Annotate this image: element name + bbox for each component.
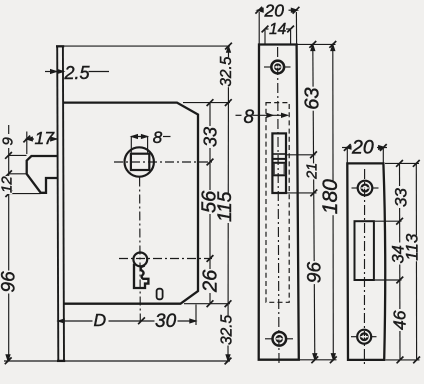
latch bolt (side profile)	[27, 156, 58, 193]
screw bottom (strike)	[357, 330, 371, 344]
svg-text:63: 63	[301, 87, 323, 109]
svg-text:2.5: 2.5	[64, 63, 91, 83]
dim 8 (follower square)	[131, 136, 147, 138]
centre line horizontal through follower	[114, 161, 212, 163]
strike inner dim line 33/34/46	[399, 163, 402, 360]
lock case outline	[64, 103, 198, 304]
dim 14 (middle)	[265, 28, 269, 30]
centre line vertical (strike)	[363, 169, 365, 366]
follower square hole	[131, 154, 149, 170]
svg-text:12: 12	[0, 176, 15, 193]
centre line vertical (follower/keyhole axis)	[139, 178, 142, 326]
centre line horizontal through keyhole	[119, 258, 212, 260]
svg-text:D: D	[94, 310, 107, 330]
svg-text:180: 180	[319, 179, 342, 214]
dim 20 (middle top)	[259, 9, 264, 11]
bottom dim D / 30	[58, 320, 196, 322]
left dim chain 9 / 12 / 96	[8, 125, 10, 361]
bottom extension line (faceplate bottom level)	[4, 360, 230, 362]
svg-text:113: 113	[403, 233, 422, 261]
screw top (strike)	[358, 181, 373, 196]
strike plate outline	[347, 163, 385, 360]
top extension line (faceplate top level)	[64, 45, 230, 47]
hidden case rectangle (dashed)	[266, 103, 289, 303]
faceplate side strip	[57, 46, 58, 361]
dim 17 (latch protrusion)	[26, 132, 28, 155]
svg-text:46: 46	[390, 310, 410, 330]
svg-text:30: 30	[155, 311, 177, 332]
svg-text:20: 20	[351, 137, 374, 159]
latch bolt front	[272, 133, 286, 193]
svg-text:14: 14	[269, 21, 287, 38]
middle right dims: 63/21/96 inner, 180 outer	[297, 43, 336, 45]
svg-text:32.5: 32.5	[218, 56, 235, 87]
keyhole slot	[134, 264, 148, 288]
outer right dim line: 32.5 / 115 / 32.5	[227, 46, 230, 361]
svg-text:17: 17	[35, 128, 56, 148]
screw bottom (middle)	[273, 332, 287, 346]
centre line vertical (middle plate)	[278, 47, 279, 365]
faceplate front outline	[259, 45, 299, 360]
case top extension	[183, 102, 230, 104]
follower circle	[125, 147, 154, 176]
screw top (middle)	[271, 61, 284, 74]
case bottom extension	[184, 303, 230, 305]
strike extension lines	[385, 162, 419, 164]
svg-text:9: 9	[0, 137, 16, 146]
svg-text:32.5: 32.5	[218, 314, 235, 345]
leader -8 (latch width)	[236, 114, 242, 116]
svg-text:8: 8	[153, 128, 163, 147]
svg-text:96: 96	[0, 271, 20, 293]
strike cutout	[355, 221, 374, 280]
strike outer dim line 113	[415, 163, 417, 360]
small slot (screw) near bottom	[157, 289, 163, 300]
svg-text:21: 21	[305, 163, 321, 180]
svg-text:26: 26	[200, 269, 222, 293]
dim 2.5 (faceplate thickness)	[45, 71, 57, 73]
svg-text:96: 96	[304, 262, 325, 284]
svg-text:33: 33	[392, 188, 411, 207]
inner right dim line: 33 / 56 / 26	[209, 103, 211, 304]
svg-text:8: 8	[244, 107, 255, 128]
dim 20 (strike top)	[342, 147, 352, 149]
svg-text:115: 115	[215, 191, 236, 222]
svg-text:33: 33	[201, 127, 221, 147]
keyhole circle	[133, 253, 147, 267]
svg-text:20: 20	[264, 0, 285, 20]
